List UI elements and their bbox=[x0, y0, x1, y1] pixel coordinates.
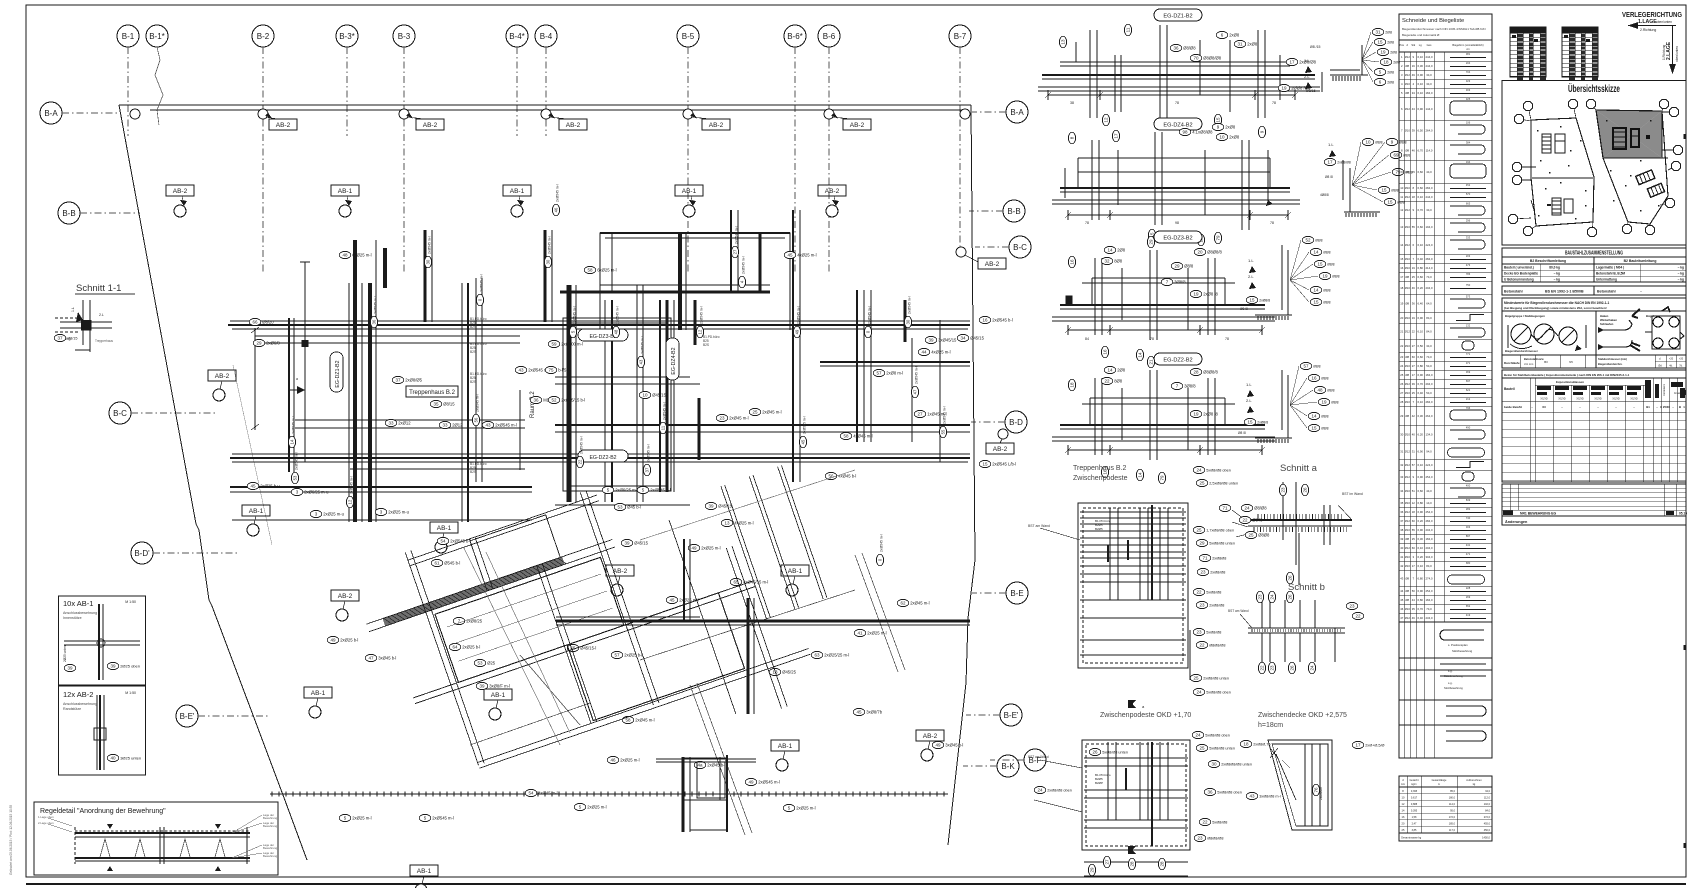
svg-text:21: 21 bbox=[1400, 330, 1404, 334]
svg-text:4d.: 4d. bbox=[1669, 365, 1673, 368]
svg-text:6,90: 6,90 bbox=[1418, 450, 1424, 454]
svg-text:254,0: 254,0 bbox=[1426, 589, 1433, 593]
rebar label 41 bbox=[854, 629, 886, 636]
svg-text:24: 24 bbox=[1400, 364, 1404, 368]
svg-text:6,60: 6,60 bbox=[1418, 275, 1424, 279]
svg-text:6,10: 6,10 bbox=[1418, 195, 1424, 199]
svg-text:AB-1: AB-1 bbox=[510, 188, 525, 195]
stair label 22 bbox=[1196, 641, 1225, 648]
beam3 label 16 bbox=[1101, 346, 1108, 358]
svg-text:2xØ8/Ø8: 2xØ8/Ø8 bbox=[1319, 787, 1323, 800]
beam4 label 14 bbox=[1104, 366, 1126, 373]
grid bubble B-D' bbox=[131, 542, 240, 564]
svg-text:XC/XD: XC/XD bbox=[1576, 398, 1584, 401]
svg-text:3xØ45 b-l: 3xØ45 b-l bbox=[378, 656, 396, 661]
rebar label 64 bbox=[449, 643, 480, 650]
svg-text:2,5xØ8/Ø8 unten: 2,5xØ8/Ø8 unten bbox=[1209, 482, 1238, 486]
svg-text:6,40: 6,40 bbox=[1418, 616, 1424, 620]
svg-text:Schnitt 1-1: Schnitt 1-1 bbox=[76, 283, 121, 294]
svg-text:41: 41 bbox=[1400, 555, 1404, 559]
svg-text:26: 26 bbox=[1092, 750, 1098, 755]
svg-text:31: 31 bbox=[1400, 450, 1404, 454]
svg-text:40: 40 bbox=[1400, 546, 1404, 550]
Baustahl table bbox=[1502, 248, 1686, 282]
svg-text:2,47: 2,47 bbox=[1412, 823, 1417, 826]
svg-text:oben/unten: oben/unten bbox=[1656, 20, 1672, 24]
rebar label 43 bbox=[482, 421, 517, 428]
svg-text:98: 98 bbox=[1182, 130, 1188, 135]
svg-text:296: 296 bbox=[1466, 219, 1471, 223]
svg-text:204,0: 204,0 bbox=[1426, 286, 1433, 290]
svg-text:EG-DZ4-B2: EG-DZ4-B2 bbox=[671, 347, 677, 374]
svg-text:U Betonumrandung: U Betonumrandung bbox=[1504, 277, 1534, 281]
svg-text:B3: B3 bbox=[1544, 360, 1548, 364]
svg-text:28: 28 bbox=[1400, 400, 1404, 404]
svg-text:10: 10 bbox=[1219, 135, 1225, 140]
rebar label 37 bbox=[392, 376, 422, 383]
grid bubble B-2 bbox=[252, 25, 274, 272]
svg-text:2Ø12: 2Ø12 bbox=[452, 423, 463, 428]
grid bubble B-C bbox=[109, 402, 215, 424]
svg-text:20: 20 bbox=[1197, 250, 1203, 255]
rebar label 61 bbox=[431, 559, 460, 566]
svg-text:23: 23 bbox=[1349, 604, 1355, 609]
svg-text:2Ø8: 2Ø8 bbox=[1117, 248, 1126, 253]
svg-text:Biegerollendurchmesser nach DI: Biegerollendurchmesser nach DIN 1045-4/N… bbox=[1402, 27, 1486, 31]
svg-text:6xØ25 m-l: 6xØ25 m-l bbox=[352, 253, 371, 258]
svg-text:17: 17 bbox=[1289, 60, 1295, 65]
stair label 23 bbox=[1197, 568, 1225, 575]
svg-text:16: 16 bbox=[1412, 64, 1416, 68]
svg-text:Ø25: Ø25 bbox=[487, 661, 496, 666]
svg-text:Ges: Ges bbox=[1427, 43, 1432, 47]
zwischenpodeste bottom label 28 bbox=[1158, 858, 1165, 870]
grid bubble B-D right bbox=[971, 411, 1027, 433]
rebar label 53 bbox=[614, 503, 641, 510]
svg-text:AB-1: AB-1 bbox=[437, 525, 452, 532]
zwischenpodeste bottom label 27 bbox=[1103, 856, 1110, 868]
svg-text:6,80: 6,80 bbox=[1418, 501, 1424, 505]
dense mini table bbox=[1562, 27, 1598, 80]
rebar label 62 bbox=[897, 599, 929, 606]
rebar label 46 bbox=[607, 756, 639, 763]
AB-2 marker near B-D bbox=[986, 429, 1014, 454]
svg-text:5xØ8/Ø8 oben: 5xØ8/Ø8 oben bbox=[1205, 734, 1230, 738]
svg-text:2xØ25 m-l: 2xØ25 m-l bbox=[796, 806, 815, 811]
svg-text:16: 16 bbox=[982, 318, 988, 323]
svg-text:Treppenhaus B.2: Treppenhaus B.2 bbox=[409, 390, 455, 396]
svg-text:184,0: 184,0 bbox=[1426, 373, 1433, 377]
svg-text:BST im Wand: BST im Wand bbox=[1342, 492, 1363, 496]
svg-text:Ø12: Ø12 bbox=[1405, 330, 1411, 334]
anchor label AB-2 bbox=[606, 565, 634, 596]
svg-text:Ø8: Ø8 bbox=[1405, 302, 1409, 306]
svg-text:384: 384 bbox=[1466, 141, 1471, 145]
svg-text:oben/unten: oben/unten bbox=[1675, 46, 1679, 62]
svg-text:(bei Biegung und Rückbiegung): (bei Biegung und Rückbiegung) sowie mind… bbox=[1504, 306, 1607, 310]
svg-text:46: 46 bbox=[1412, 286, 1416, 290]
anchor label AB-2 bbox=[331, 590, 359, 621]
svg-text:76: 76 bbox=[1314, 787, 1319, 793]
rebar label 5 bbox=[637, 486, 671, 493]
svg-text:30: 30 bbox=[1211, 762, 1217, 767]
svg-text:Decke EG Bodenplatte: Decke EG Bodenplatte bbox=[1504, 271, 1538, 275]
svg-text:48: 48 bbox=[614, 329, 619, 334]
svg-text:Bewehrung: Bewehrung bbox=[263, 816, 278, 820]
svg-text:46: 46 bbox=[1412, 149, 1416, 153]
svg-text:2xØ545 m-l: 2xØ545 m-l bbox=[573, 306, 577, 324]
svg-text:5xØ8/Ø8 unten: 5xØ8/Ø8 unten bbox=[1209, 542, 1235, 546]
svg-text:31: 31 bbox=[1412, 450, 1416, 454]
svg-text:Bügelgruppe / Stabbiegungen: Bügelgruppe / Stabbiegungen bbox=[1505, 314, 1545, 318]
svg-text:B-D': B-D' bbox=[134, 549, 150, 558]
svg-text:Stützbewehrung: Stützbewehrung bbox=[1452, 649, 1473, 653]
svg-text:6,10: 6,10 bbox=[1418, 463, 1424, 467]
svg-text:26: 26 bbox=[1290, 665, 1295, 671]
svg-text:s.g.: s.g. bbox=[1448, 681, 1453, 685]
svg-text:32: 32 bbox=[1400, 463, 1404, 467]
rebar label 65 bbox=[730, 578, 768, 585]
stair label 29 bbox=[1196, 539, 1235, 546]
beam4 label 19 bbox=[1190, 410, 1218, 417]
svg-text:94,0: 94,0 bbox=[1426, 450, 1432, 454]
svg-text:>20: >20 bbox=[1679, 358, 1684, 361]
beam3 label 32 bbox=[1101, 257, 1123, 264]
svg-text:282: 282 bbox=[1466, 507, 1471, 511]
svg-text:36: 36 bbox=[1173, 46, 1179, 51]
zwischenpodeste label 26 bbox=[1089, 748, 1128, 755]
diagonal dimension lines bbox=[470, 553, 905, 835]
svg-text:37: 37 bbox=[1400, 519, 1404, 523]
svg-text:35: 35 bbox=[1412, 607, 1416, 611]
grid bubble B-6* bbox=[784, 25, 806, 272]
svg-text:6,10: 6,10 bbox=[1418, 546, 1424, 550]
rebar label 45 bbox=[247, 482, 280, 489]
svg-text:2xØ25 b-l: 2xØ25 b-l bbox=[624, 653, 642, 658]
zwischenpodeste label 24 bbox=[1192, 731, 1230, 738]
svg-text:EG-DZ1-B2: EG-DZ1-B2 bbox=[1163, 14, 1192, 20]
svg-text:AB-2: AB-2 bbox=[215, 373, 230, 380]
svg-text:2Ø25 unten: 2Ø25 unten bbox=[63, 645, 67, 662]
Zwischenpodeste body bbox=[1028, 740, 1190, 876]
zwischendecke rotated label bbox=[1312, 784, 1323, 800]
svg-text:Ø45/15: Ø45/15 bbox=[634, 541, 648, 546]
svg-text:36: 36 bbox=[1207, 790, 1213, 795]
rebar label 56 bbox=[825, 472, 856, 479]
svg-text:264,0: 264,0 bbox=[1426, 129, 1433, 133]
svg-text:Ø10: Ø10 bbox=[1405, 344, 1411, 348]
svg-text:74,0: 74,0 bbox=[1426, 607, 1432, 611]
beam4 label 18 bbox=[1068, 379, 1075, 391]
svg-text:52: 52 bbox=[1305, 238, 1311, 243]
svg-text:2xØ545 m-l: 2xØ545 m-l bbox=[758, 780, 780, 785]
svg-text:64: 64 bbox=[452, 645, 458, 650]
svg-text:Randstütze: Randstütze bbox=[63, 707, 81, 711]
svg-text:7d.: 7d. bbox=[1679, 365, 1683, 368]
zwischenpodeste bottom label 28 bbox=[1128, 858, 1135, 870]
svg-text:48: 48 bbox=[342, 253, 348, 258]
svg-text:6,90: 6,90 bbox=[1418, 510, 1424, 514]
svg-text:15: 15 bbox=[1249, 298, 1255, 303]
svg-text:6,20: 6,20 bbox=[1418, 433, 1424, 437]
guide lines lower bbox=[464, 470, 855, 745]
svg-text:2xØ8: 2xØ8 bbox=[1229, 135, 1240, 140]
svg-text:60: 60 bbox=[1412, 519, 1416, 523]
svg-text:15: 15 bbox=[1377, 40, 1383, 45]
svg-text:Innenstütze: Innenstütze bbox=[63, 616, 82, 620]
svg-text:Ø8/8: Ø8/8 bbox=[1331, 401, 1338, 405]
svg-text:34: 34 bbox=[1400, 489, 1404, 493]
rebar label 59 bbox=[548, 340, 583, 347]
svg-text:26: 26 bbox=[1303, 487, 1308, 493]
svg-text:AB-2: AB-2 bbox=[173, 188, 188, 195]
detail box 10x AB-1 bbox=[59, 596, 146, 685]
beam1 label 31 bbox=[1234, 40, 1258, 47]
svg-text:34: 34 bbox=[960, 336, 966, 341]
svg-text:6,80: 6,80 bbox=[1418, 266, 1424, 270]
svg-text:m: m bbox=[1438, 783, 1440, 786]
svg-text:2xØ545 m-l: 2xØ545 m-l bbox=[432, 816, 454, 821]
beam detail title EG-DZ2-B2 bbox=[1154, 353, 1202, 365]
svg-text:Ø8: Ø8 bbox=[1405, 537, 1409, 541]
svg-text:55: 55 bbox=[1412, 528, 1416, 532]
svg-text:20: 20 bbox=[1400, 316, 1404, 320]
svg-text:43: 43 bbox=[485, 423, 491, 428]
beam2 label 9 bbox=[1258, 126, 1265, 138]
svg-text:2xØ8: 2xØ8 bbox=[1229, 33, 1240, 38]
svg-text:2xØ25 b-u: 2xØ25 b-u bbox=[260, 484, 280, 489]
wall network vertical bbox=[289, 210, 940, 522]
svg-text:2xØ8 m-l: 2xØ8 m-l bbox=[886, 371, 903, 376]
svg-text:43: 43 bbox=[639, 359, 644, 364]
svg-text:2xØ8Ø8/Ø8 unten: 2xØ8Ø8/Ø8 unten bbox=[1221, 763, 1252, 767]
svg-text:6,40: 6,40 bbox=[1418, 391, 1424, 395]
svg-text:B-1*: B-1* bbox=[149, 32, 165, 41]
svg-text:Ø8Ø8/8: Ø8Ø8/8 bbox=[1203, 370, 1218, 375]
svg-text:–: – bbox=[1640, 290, 1642, 294]
svg-text:2xØ545 m-l: 2xØ545 m-l bbox=[580, 436, 584, 454]
svg-text:BST am Wand: BST am Wand bbox=[1228, 609, 1249, 613]
svg-text:Ø12: Ø12 bbox=[1405, 519, 1411, 523]
rebar label 57 bbox=[873, 369, 903, 376]
beam4 label 7 bbox=[1171, 382, 1196, 389]
svg-text:24: 24 bbox=[1244, 506, 1250, 511]
svg-text:XC/XD: XC/XD bbox=[1594, 398, 1602, 401]
AB-2 marker near B-C bbox=[956, 247, 1006, 269]
room annotation text bbox=[470, 317, 487, 329]
stair label 25 bbox=[1196, 479, 1238, 486]
svg-text:84,0: 84,0 bbox=[1426, 316, 1432, 320]
anchor circle top row bbox=[824, 109, 871, 130]
svg-text:Ø10: Ø10 bbox=[1405, 186, 1411, 190]
svg-text:2.L: 2.L bbox=[1248, 274, 1254, 279]
rebar label 58 bbox=[622, 716, 654, 723]
svg-text:6,40: 6,40 bbox=[1418, 302, 1424, 306]
anchor label AB-1 bbox=[304, 687, 332, 718]
svg-text:44: 44 bbox=[921, 350, 927, 355]
svg-text:XC/XD: XC/XD bbox=[1558, 398, 1566, 401]
rebar label 5 bbox=[419, 814, 454, 821]
beam detail title EG-DZ4-B2 bbox=[1154, 118, 1202, 130]
svg-text:114,0: 114,0 bbox=[1426, 149, 1433, 153]
svg-text:Ø8 /8: Ø8 /8 bbox=[1238, 431, 1246, 435]
schnitt a label 26 bbox=[1286, 572, 1293, 584]
anchor circle top row bbox=[541, 109, 587, 130]
svg-text:117,0: 117,0 bbox=[1449, 829, 1456, 832]
svg-text:15: 15 bbox=[1400, 257, 1404, 261]
rotated building section bbox=[349, 428, 857, 828]
svg-text:Ø8/8: Ø8/8 bbox=[1321, 427, 1328, 431]
svg-text:78: 78 bbox=[1272, 101, 1276, 105]
svg-text:10: 10 bbox=[1365, 140, 1371, 145]
svg-text:29: 29 bbox=[1199, 541, 1205, 546]
Schnitt a body bbox=[1232, 482, 1363, 585]
svg-text:53: 53 bbox=[293, 475, 298, 480]
grid bubble B-7 bbox=[949, 25, 971, 250]
beam1 label 11 bbox=[1124, 24, 1131, 36]
svg-text:14,0: 14,0 bbox=[1426, 501, 1432, 505]
svg-text:44,0: 44,0 bbox=[1426, 170, 1432, 174]
svg-text:AB-2: AB-2 bbox=[825, 188, 840, 195]
svg-text:12: 12 bbox=[348, 499, 353, 504]
svg-text:2xØ545 m-l: 2xØ545 m-l bbox=[641, 336, 645, 354]
svg-text:471: 471 bbox=[1466, 552, 1471, 556]
svg-text:22: 22 bbox=[1199, 643, 1205, 648]
svg-text:Ø10: Ø10 bbox=[1405, 286, 1411, 290]
svg-text:23: 23 bbox=[1200, 570, 1206, 575]
svg-text:6,30: 6,30 bbox=[1418, 414, 1424, 418]
svg-text:47: 47 bbox=[913, 389, 918, 394]
svg-text:58: 58 bbox=[625, 718, 631, 723]
svg-text:71: 71 bbox=[1222, 506, 1228, 511]
svg-text:3xØ45/15: 3xØ45/15 bbox=[938, 338, 957, 343]
rebar label 27 bbox=[914, 410, 946, 417]
svg-text:6,10: 6,10 bbox=[1418, 564, 1424, 568]
svg-text:B-5: B-5 bbox=[682, 32, 695, 41]
svg-text:3xØ8/F m-l: 3xØ8/F m-l bbox=[489, 684, 510, 689]
svg-text:13: 13 bbox=[1061, 39, 1066, 45]
svg-text:6,60: 6,60 bbox=[1418, 170, 1424, 174]
beam2 label 79 bbox=[1214, 232, 1221, 244]
beam detail title EG-DZ1-B2 bbox=[1154, 9, 1202, 21]
schnitt b label 26 bbox=[1288, 662, 1295, 674]
svg-text:25: 25 bbox=[1196, 528, 1202, 533]
svg-text:Cmax: Cmax bbox=[1674, 392, 1681, 395]
svg-text:5xØ8/Ø8 unten: 5xØ8/Ø8 unten bbox=[1102, 751, 1128, 755]
svg-text:2xØ545 m-l: 2xØ545 m-l bbox=[742, 256, 746, 274]
svg-text:56: 56 bbox=[474, 417, 479, 422]
svg-text:27: 27 bbox=[1412, 344, 1416, 348]
svg-text:X3: X3 bbox=[1542, 405, 1546, 409]
rebar label 3 bbox=[310, 510, 344, 517]
svg-text:95,0: 95,0 bbox=[1450, 810, 1455, 813]
svg-text:32: 32 bbox=[1104, 259, 1110, 264]
anchor label AB-1 bbox=[242, 505, 270, 536]
svg-text:B2S: B2S bbox=[470, 380, 476, 384]
svg-text:84,0: 84,0 bbox=[1426, 564, 1432, 568]
svg-text:25: 25 bbox=[1412, 275, 1416, 279]
dense mini table bbox=[1510, 27, 1546, 80]
svg-text:Gesamtlänge: Gesamtlänge bbox=[1432, 779, 1447, 782]
svg-text:1,58: 1,58 bbox=[1412, 816, 1417, 819]
rebar label 3 bbox=[375, 508, 409, 515]
frame fold marks bbox=[1684, 134, 1687, 848]
svg-text:6,80: 6,80 bbox=[1418, 577, 1424, 581]
svg-text:78: 78 bbox=[1085, 221, 1089, 225]
svg-text:33: 33 bbox=[388, 421, 394, 426]
grid bubble B-A right bbox=[972, 101, 1028, 123]
svg-text:54,0: 54,0 bbox=[1426, 364, 1432, 368]
svg-text:5xØ8/Ø8: 5xØ8/Ø8 bbox=[1212, 821, 1227, 825]
beam3 right section detail bbox=[1240, 236, 1340, 320]
svg-text:Ø45 b-l: Ø45 b-l bbox=[627, 505, 641, 510]
svg-text:2.L: 2.L bbox=[1304, 74, 1310, 79]
anchor circle top row bbox=[258, 109, 297, 130]
svg-text:2xØ6/8: 2xØ6/8 bbox=[266, 341, 280, 346]
schnitt b label 23 bbox=[1268, 662, 1275, 674]
beam2 label 8 bbox=[1068, 132, 1075, 144]
svg-text:Ø8: Ø8 bbox=[1405, 577, 1409, 581]
svg-text:2xØ45 m-l: 2xØ45 m-l bbox=[729, 416, 748, 421]
svg-text:3xØ45 b-l: 3xØ45 b-l bbox=[945, 743, 963, 748]
svg-text:33: 33 bbox=[1400, 475, 1404, 479]
svg-text:36: 36 bbox=[533, 398, 539, 403]
wall notch top bbox=[600, 233, 790, 330]
svg-text:6,10: 6,10 bbox=[1418, 55, 1424, 59]
rebar label 49 bbox=[932, 741, 963, 748]
svg-text:6,50: 6,50 bbox=[1418, 344, 1424, 348]
svg-text:212: 212 bbox=[1466, 397, 1471, 401]
svg-text:Ø45/15: Ø45/15 bbox=[970, 336, 984, 341]
Betonstahl row bbox=[1502, 286, 1686, 295]
svg-text:2xØ545 m-l: 2xØ545 m-l bbox=[495, 423, 517, 428]
Schnitt 1-1 detail bbox=[54, 283, 135, 352]
svg-text:573: 573 bbox=[1466, 295, 1471, 299]
schnitt a label 22 bbox=[1239, 516, 1263, 523]
svg-text:45: 45 bbox=[669, 598, 675, 603]
svg-text:d in mm: d in mm bbox=[1524, 362, 1533, 366]
svg-text:6,70: 6,70 bbox=[1418, 382, 1424, 386]
svg-text:2xØ545 m-l: 2xØ545 m-l bbox=[663, 402, 667, 420]
svg-text:323: 323 bbox=[1466, 79, 1471, 83]
svg-text:Biegerollendurchmesser: Biegerollendurchmesser bbox=[1505, 349, 1539, 353]
svg-text:23: 23 bbox=[1197, 836, 1203, 841]
detail ref EG-DZ1-B2 bbox=[330, 352, 343, 392]
svg-text:2xØ545 L/b-l: 2xØ545 L/b-l bbox=[992, 462, 1016, 467]
rebar label 47 bbox=[365, 654, 396, 661]
rebar label 52 bbox=[548, 396, 585, 403]
schnitt a label 24 bbox=[1241, 504, 1267, 511]
rebar label 39 bbox=[476, 682, 510, 689]
svg-text:Bewehrung: Bewehrung bbox=[263, 824, 278, 828]
svg-text:2xØ8/Ø8: 2xØ8/Ø8 bbox=[1210, 571, 1225, 575]
svg-text:26: 26 bbox=[1288, 594, 1293, 600]
svg-text:31: 31 bbox=[1375, 30, 1381, 35]
svg-text:25: 25 bbox=[1199, 481, 1205, 486]
svg-text:6,60: 6,60 bbox=[1418, 355, 1424, 359]
hatched boundary line bbox=[270, 792, 948, 797]
svg-text:Ø10: Ø10 bbox=[1405, 607, 1411, 611]
svg-text:Schneide und Biegeliste: Schneide und Biegeliste bbox=[1402, 18, 1464, 24]
grid bubble B-A bbox=[40, 102, 120, 124]
svg-text:455,0: 455,0 bbox=[1484, 823, 1491, 826]
svg-text:22: 22 bbox=[1196, 590, 1202, 595]
svg-text:Ø8/8: Ø8/8 bbox=[1391, 189, 1398, 193]
svg-text:19: 19 bbox=[1281, 86, 1287, 91]
svg-text:4xØ25 m-l: 4xØ25 m-l bbox=[931, 350, 950, 355]
svg-text:49: 49 bbox=[691, 546, 697, 551]
stair label 24 bbox=[1193, 466, 1231, 473]
